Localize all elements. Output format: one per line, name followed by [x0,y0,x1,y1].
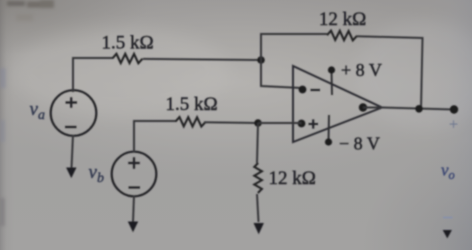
va plus sign [66,97,78,108]
ground arrow below vb [128,222,138,233]
svg-text:12 kΩ: 12 kΩ [319,9,366,30]
svg-text:12 kΩ: 12 kΩ [269,168,316,189]
wire: R3 bottom to ground arrow [257,194,259,222]
label - of vo [443,217,453,219]
svg-text:1.5 kΩ: 1.5 kΩ [101,33,153,54]
va minus sign [65,126,77,128]
voltage source va [51,90,97,136]
resistor R1 1.5 kOhm (va branch) [112,54,142,64]
wire: node A up to feedback resistor Rf [261,34,327,60]
wire: va top lead up and right to R1 [73,58,113,92]
wire: vb bottom lead down to ground arrow [133,196,134,223]
wire: node C to noninverting input [258,122,302,124]
wire: output dot to apex and right to node B [363,108,454,110]
op-amp output terminal dot [359,103,367,111]
op-amp U1 triangle [293,66,382,142]
wire: va bottom lead down to ground arrow [72,135,74,168]
svg-text:− 8 V: − 8 V [339,134,380,154]
ground arrow at vo minus terminal [443,230,452,238]
output terminal node dot [450,105,458,113]
svg-text:+: + [449,117,458,134]
node A junction dot [257,56,265,64]
wire: Rf right, down to output node [357,36,423,109]
resistor R2 1.5 kOhm (vb branch) [175,117,205,127]
wire: node A down and right to inverting input [261,60,302,88]
op-amp plus sign [309,119,319,128]
op-amp minus sign [311,89,321,91]
op-amp positive supply pin wire [331,70,334,95]
svg-text:+ 8 V: + 8 V [341,60,382,80]
op-amp inverting input terminal dot [299,86,307,94]
ground arrow below R3 [254,223,264,234]
node C junction dot [254,119,262,127]
node B junction dot (feedback meets output) [415,105,423,113]
vb minus sign [129,186,141,188]
vb plus sign [128,157,140,169]
op-amp noninverting input terminal dot [298,120,306,128]
resistor R3 12 kOhm (to ground) [254,163,262,193]
svg-text:1.5 kΩ: 1.5 kΩ [165,94,217,115]
resistor Rf 12 kOhm (feedback) [327,31,357,41]
op-amp negative supply pin wire [328,115,331,142]
wire: R2 right to node C [204,121,258,124]
op-amp positive supply terminal dot [328,66,335,73]
op-amp negative supply terminal dot [325,138,332,145]
wire: vb top lead up and right to R2 [134,121,176,153]
voltage source vb [112,152,157,197]
wire: node C down to R3 [257,123,258,163]
wire: R1 right to node A [143,59,261,60]
ground arrow below va [66,168,76,179]
